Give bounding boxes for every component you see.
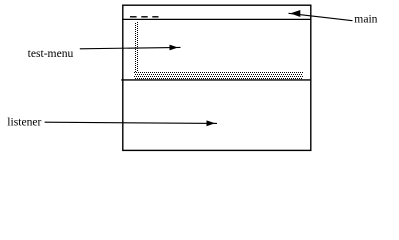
wire main arrow line — [289, 13, 353, 20]
window frame — [123, 5, 311, 150]
dotted band row 1 — [134, 72, 303, 74]
separator line — [121, 79, 310, 81]
dotted band row 3 — [134, 76, 303, 78]
svg-text:main: main — [354, 13, 377, 26]
dotted band row 4 — [135, 78, 303, 80]
menu dash 1 — [130, 16, 137, 17]
dotted menu column left dots — [135, 23, 137, 72]
arrowhead test-menu — [170, 45, 179, 51]
wire test-menu arrow line — [80, 47, 181, 48]
menu dash 2 — [141, 16, 147, 17]
title bar bottom line — [122, 18, 311, 20]
svg-text:test-menu: test-menu — [28, 47, 74, 60]
menu dash 3 — [152, 16, 158, 17]
arrowhead main — [290, 10, 300, 17]
dotted menu column right dots — [137, 22, 139, 72]
arrowhead listener — [207, 120, 216, 126]
dotted band row 2 — [135, 74, 303, 76]
svg-text:listener: listener — [7, 116, 41, 129]
wire listener arrow line — [45, 122, 217, 123]
